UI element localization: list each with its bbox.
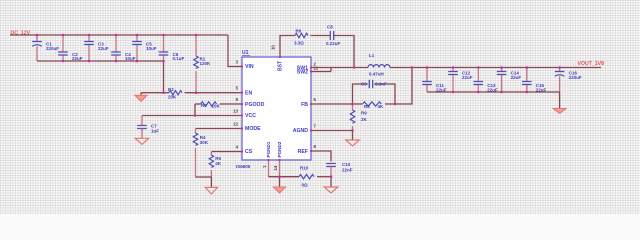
junction dots input rails	[36, 34, 198, 117]
svg-text:L1: L1	[369, 53, 375, 58]
svg-text:5: 5	[236, 86, 239, 91]
ground G6 (below C10)	[324, 177, 338, 193]
capacitor C2	[58, 35, 83, 61]
wire R6 to C8	[311, 35, 331, 37]
svg-text:FB: FB	[301, 102, 308, 108]
svg-text:SW2: SW2	[297, 70, 308, 76]
wire VCC row	[142, 115, 242, 117]
capacitor C6	[159, 35, 185, 61]
svg-text:22nF: 22nF	[342, 168, 353, 173]
wire PGND rail	[269, 176, 300, 178]
svg-text:3.3Ω: 3.3Ω	[294, 41, 304, 46]
ground G3 (R4 R5)	[205, 187, 217, 194]
capacitor C7	[137, 116, 159, 139]
svg-text:13: 13	[233, 108, 238, 113]
svg-text:0.22uF: 0.22uF	[326, 41, 341, 46]
capacitor C16	[555, 68, 582, 93]
svg-text:C8: C8	[327, 25, 333, 30]
svg-text:IS6605: IS6605	[236, 164, 251, 169]
svg-text:8: 8	[314, 144, 317, 149]
svg-text:2K: 2K	[361, 117, 368, 122]
capacitor C13	[474, 68, 499, 93]
wire VIN drop to pin 3	[228, 35, 242, 67]
pin numbers right side	[314, 62, 319, 150]
ground G1 (EN pulldown)	[135, 93, 147, 102]
wire PGND1 stub	[268, 160, 270, 177]
svg-text:4K: 4K	[378, 104, 385, 109]
capacitor C15	[522, 68, 547, 93]
resistor R4	[193, 129, 209, 178]
wire FB row	[311, 103, 363, 105]
svg-text:REF: REF	[298, 149, 308, 155]
capacitor C4	[111, 35, 136, 61]
ground G2 (C7)	[135, 138, 149, 144]
wire MODE row	[196, 128, 243, 130]
capacitor C3	[84, 35, 109, 61]
svg-text:7: 7	[314, 124, 317, 129]
wire R8 to VOUT riser	[385, 68, 412, 105]
wire R4-R5 ground link	[196, 176, 212, 178]
op-amp U1 IS6605 regulator IC body	[236, 50, 311, 169]
wire EN row	[141, 92, 169, 94]
pin connection dots	[241, 56, 312, 161]
wire input bottom rail	[37, 60, 164, 62]
resistor R6	[294, 29, 308, 46]
svg-text:BST: BST	[278, 61, 284, 71]
svg-text:R10: R10	[300, 166, 309, 171]
svg-text:R2: R2	[168, 87, 174, 92]
svg-text:R6: R6	[296, 29, 302, 34]
resistor R3	[201, 102, 221, 109]
svg-text:PGND1: PGND1	[266, 141, 271, 157]
capacitor C1	[32, 35, 59, 61]
svg-text:1: 1	[262, 165, 267, 168]
svg-text:R9: R9	[361, 110, 367, 115]
svg-text:1uF: 1uF	[151, 129, 159, 134]
capacitor C10	[326, 162, 353, 177]
svg-text:C10: C10	[342, 162, 351, 167]
svg-text:R8: R8	[364, 104, 370, 109]
wire SW node to L1	[331, 67, 368, 69]
pin numbers left side	[233, 59, 238, 149]
svg-text:C9: C9	[361, 82, 367, 87]
inductor L1	[368, 53, 390, 76]
capacitor C9 feedforward loop	[353, 80, 396, 104]
resistor R1	[194, 35, 211, 93]
svg-text:MODE: MODE	[245, 126, 261, 132]
wire PGOOD row	[220, 103, 242, 105]
svg-text:6: 6	[314, 97, 317, 102]
svg-text:9: 9	[236, 97, 239, 102]
svg-text:CS: CS	[245, 149, 253, 155]
svg-text:PGOOD: PGOOD	[245, 102, 265, 108]
resistor R9	[350, 104, 367, 131]
svg-text:0Ω: 0Ω	[302, 183, 309, 188]
capacitor C5	[132, 35, 157, 61]
resistor R5	[209, 152, 222, 178]
svg-text:12: 12	[233, 121, 238, 126]
svg-text:VIN: VIN	[245, 64, 254, 70]
svg-text:4: 4	[236, 144, 239, 149]
wire REF row	[311, 151, 331, 162]
wire VOUT rail	[390, 67, 601, 69]
wire CS row	[211, 151, 242, 153]
svg-text:20K: 20K	[168, 94, 177, 99]
svg-text:22uF: 22uF	[462, 75, 473, 80]
wire output bottom rail	[427, 91, 560, 93]
ground G7 (output)	[553, 92, 566, 113]
wire BST stub	[280, 36, 295, 58]
wire input top rail	[10, 34, 228, 36]
svg-text:0.47uH: 0.47uH	[369, 71, 384, 76]
svg-text:4K: 4K	[215, 161, 222, 166]
wire AGND row	[311, 130, 353, 132]
ground G4 (AGND)	[346, 140, 360, 146]
capacitor C11	[422, 68, 447, 93]
svg-text:22uF: 22uF	[511, 75, 522, 80]
svg-text:VCC: VCC	[245, 113, 256, 119]
svg-text:3.3nF: 3.3nF	[375, 82, 387, 87]
svg-text:PGND2: PGND2	[277, 141, 282, 157]
ground G5 (PGND)	[274, 177, 286, 193]
svg-text:220uF: 220uF	[46, 46, 59, 51]
wire input ground drop	[163, 61, 165, 93]
svg-text:EN: EN	[245, 90, 252, 96]
svg-text:10K: 10K	[212, 104, 221, 109]
svg-text:R3: R3	[201, 103, 207, 108]
svg-text:220uF: 220uF	[569, 75, 582, 80]
resistor R2	[168, 87, 182, 99]
svg-text:3: 3	[236, 59, 239, 64]
svg-text:120K: 120K	[200, 61, 212, 66]
svg-text:30K: 30K	[200, 140, 209, 145]
resistor R10	[299, 166, 314, 188]
resistor R8	[363, 102, 385, 109]
capacitor C14	[497, 68, 522, 93]
wire C8 to SW node	[334, 36, 354, 68]
junction dots SW and VOUT rails	[353, 66, 561, 93]
svg-text:0.1uF: 0.1uF	[173, 56, 185, 61]
svg-text:10: 10	[271, 45, 276, 50]
capacitor C12	[448, 68, 473, 93]
wire PGND2 stub	[279, 160, 281, 177]
svg-text:14: 14	[273, 165, 278, 170]
wire R10 to C10 bottom	[317, 176, 331, 178]
junction dots FB network	[278, 103, 396, 178]
svg-text:VOUT_1V8: VOUT_1V8	[578, 61, 605, 67]
wire SW1 SW2 stubs	[311, 67, 331, 69]
svg-text:22uF: 22uF	[98, 46, 109, 51]
svg-text:10uF: 10uF	[146, 46, 157, 51]
capacitor C8	[326, 25, 341, 46]
svg-text:R4: R4	[200, 135, 206, 140]
svg-text:AGND: AGND	[293, 128, 309, 134]
